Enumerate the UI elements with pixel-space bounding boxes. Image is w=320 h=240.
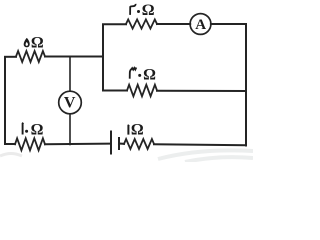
wire bottom left lead <box>5 143 15 145</box>
label 1 ohm: digit one <box>127 125 130 135</box>
svg-text:Ω: Ω <box>143 66 156 83</box>
wire left edge vertical <box>4 57 6 144</box>
label 20 ohm: digit zero dot <box>137 10 140 13</box>
label 10 ohm: digit one <box>22 123 25 135</box>
label 10 ohm: digit zero dot <box>25 130 28 133</box>
label 20 ohm: digit two <box>130 4 136 15</box>
wire top branch right lead <box>211 23 246 25</box>
resistor R1 5ohm zigzag <box>16 51 45 62</box>
svg-text:Ω: Ω <box>142 2 155 19</box>
battery cell short plate <box>118 138 120 149</box>
resistor R5 1ohm zigzag <box>124 139 154 149</box>
battery cell long plate <box>110 132 112 154</box>
wire middle branch left lead <box>103 90 127 92</box>
wire 5-ohm branch right lead to node <box>45 56 103 58</box>
wire voltmeter vertical lower <box>69 114 71 145</box>
wire 5-ohm branch left lead <box>5 56 16 58</box>
wire top branch left lead <box>103 23 126 25</box>
wire battery to 1ohm lead <box>119 143 124 145</box>
svg-text:Ω: Ω <box>31 122 44 139</box>
label 30 ohm: digit zero dot <box>138 74 141 77</box>
resistor R2 20ohm zigzag <box>126 19 157 28</box>
svg-text:Ω: Ω <box>131 122 144 139</box>
wire bottom right lead <box>154 144 246 145</box>
wire parallel-section left vertical <box>102 25 104 91</box>
resistor R3 30ohm zigzag <box>127 85 157 97</box>
wire bottom middle lead to battery <box>45 143 110 146</box>
label 30 ohm: digit three <box>130 68 137 79</box>
label 5 ohm: digit five counter <box>26 42 28 46</box>
wire voltmeter tap vertical upper <box>69 57 71 92</box>
wire top branch middle lead <box>157 23 190 25</box>
wire middle branch right lead <box>157 90 246 92</box>
voltmeter V circle <box>59 91 82 114</box>
svg-text:A: A <box>195 17 206 33</box>
ammeter A circle <box>190 14 211 35</box>
svg-text:Ω: Ω <box>31 34 44 51</box>
resistor R4 10ohm zigzag <box>15 138 45 150</box>
label 5 ohm: digit five (Arabic-Indic) <box>24 38 30 47</box>
svg-text:V: V <box>64 95 76 112</box>
wire right edge vertical <box>245 24 247 146</box>
